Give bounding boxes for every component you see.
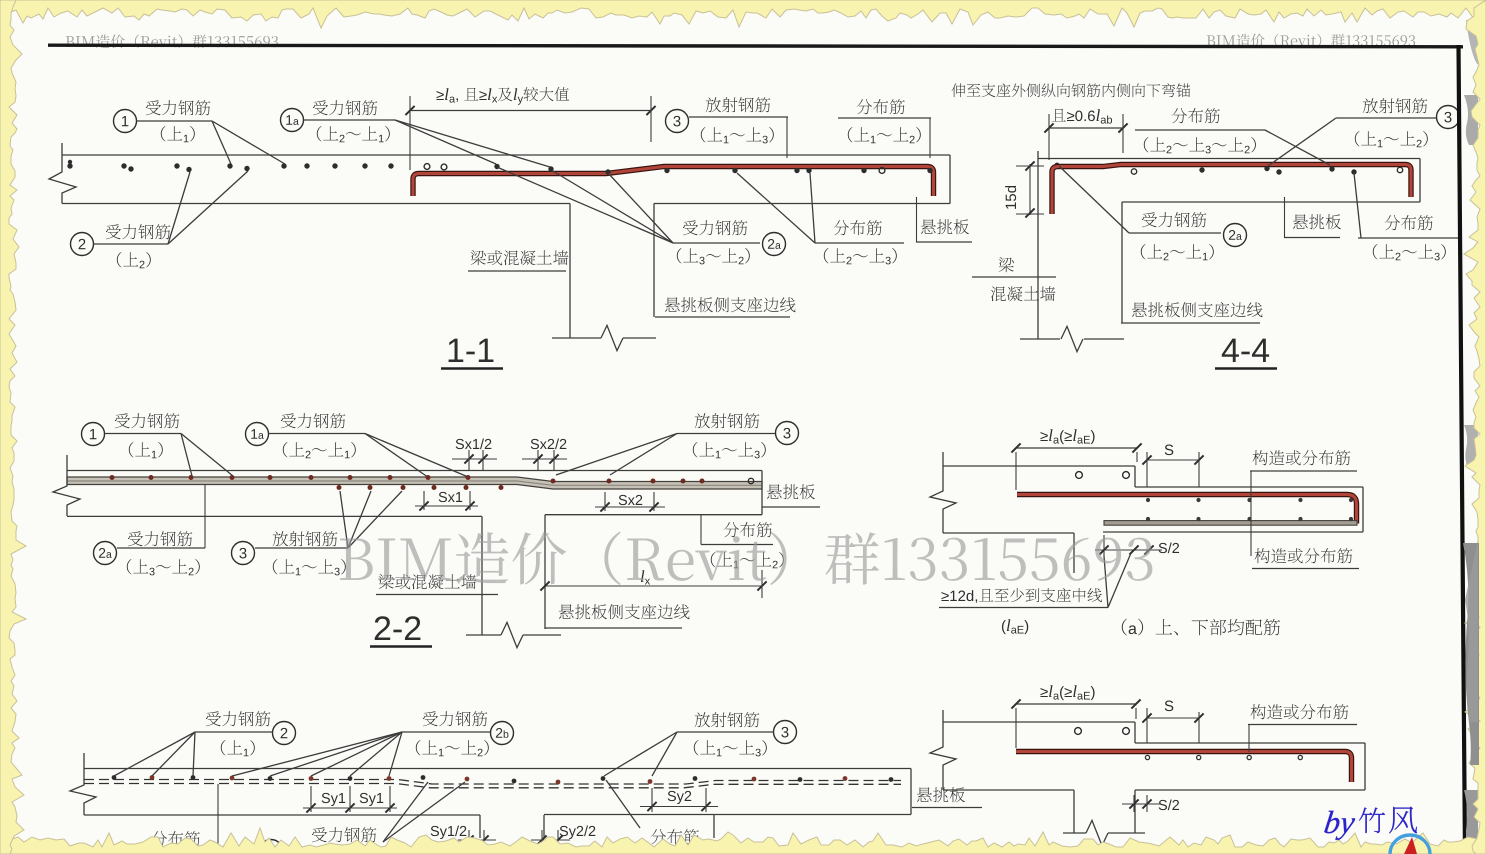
label fabric bars top right 1-1 xyxy=(857,99,905,114)
2-2 circle 2a xyxy=(94,542,117,565)
3-3 circle 2 xyxy=(206,711,270,726)
2-2 circle 3 bottom xyxy=(232,542,255,565)
(b) slab outline xyxy=(943,721,1135,723)
label circle 3 : radial bars 1-1 xyxy=(666,110,689,133)
rebar dots 4-4 xyxy=(1131,169,1136,174)
(b) distribution dots xyxy=(1145,755,1149,759)
15d dimension xyxy=(1029,164,1031,215)
title 1-1 xyxy=(449,339,494,362)
(a) 12d note xyxy=(941,588,1101,603)
label cantilever slab 1-1 xyxy=(921,219,969,234)
title 2-2 xyxy=(375,616,421,640)
(a) dimension la xyxy=(1040,429,1094,444)
(b) S/2 dim xyxy=(1159,799,1179,810)
2-2 dim Sx1 xyxy=(439,492,463,502)
3-3 cantilever label xyxy=(917,787,965,802)
(b) rebar xyxy=(1016,752,1352,783)
(a) top anchor circles xyxy=(1076,472,1083,479)
2-2 left break xyxy=(53,455,80,516)
4-4 header note xyxy=(952,83,1190,97)
label beam/wall 4-4 xyxy=(999,257,1014,272)
2-2 circle 1 xyxy=(82,423,105,446)
(a) S dimension xyxy=(1165,445,1174,456)
2-2 lx dimension xyxy=(545,585,762,587)
3-3 dashed bars xyxy=(84,780,901,785)
label support edge 4-4 xyxy=(1132,302,1263,317)
label circle 2 : bottom bars xyxy=(71,233,94,256)
signature by zhufeng xyxy=(1323,811,1356,840)
dimension >=la top of 1-1 xyxy=(410,110,651,112)
right page edge xyxy=(1459,45,1466,854)
label 2a mid 1-1 xyxy=(683,220,747,235)
label cantilever 4-4 xyxy=(1293,214,1341,229)
2-2 circle 1a xyxy=(246,423,269,446)
3-3 circle 2b xyxy=(423,711,487,726)
dimension 0.6lab xyxy=(1049,127,1123,129)
(a) S/2 and 12d dims xyxy=(1159,542,1179,553)
section 1-1 slab outline xyxy=(62,154,950,156)
2-2 circle 3 top xyxy=(776,422,799,445)
label circle 1a xyxy=(281,109,304,132)
gray scan streaks right edge xyxy=(1464,95,1478,145)
top rule xyxy=(48,45,1463,47)
(b) fabric label xyxy=(1250,704,1348,719)
label fabric mid 1-1 xyxy=(834,220,882,235)
3-3 fabric label mid xyxy=(651,829,699,844)
watermark center xyxy=(340,532,1152,585)
label main bars 4-4 xyxy=(1142,212,1206,227)
3-3 dims Sy1 xyxy=(322,793,346,806)
(a) caption xyxy=(1122,619,1280,636)
2-2 slab band (cut) xyxy=(67,477,762,489)
3-3 dots xyxy=(112,775,117,780)
3-3 dims Sy1/2 Sy2/2 xyxy=(431,825,467,839)
watermark top-left xyxy=(66,34,278,48)
rebar section dots 1-1 xyxy=(67,163,72,168)
title 4-4 xyxy=(1222,339,1269,362)
3-3 fabric label left xyxy=(152,831,200,846)
(b) dimension la xyxy=(1040,685,1094,700)
(a) bottom bars band xyxy=(1104,521,1357,526)
3-3 left break xyxy=(70,753,96,815)
wall below 1-1 xyxy=(569,204,571,339)
2-2 support edge label xyxy=(559,604,690,619)
2-2 wall lines xyxy=(67,515,482,517)
label circle 1 : main bars xyxy=(114,110,137,133)
watermark top-right xyxy=(1207,34,1415,48)
(a) slab outline xyxy=(943,465,1135,467)
label radial top 4-4 xyxy=(1363,98,1428,113)
2-2 dims Sx1/2 Sx2/2 xyxy=(456,438,492,449)
2-2 dim Sx2 xyxy=(619,495,643,505)
2-2 beam label xyxy=(379,574,477,589)
3-3 dim Sy2 xyxy=(668,791,692,804)
2-2 slab top line xyxy=(67,470,762,472)
3-3 slab top line xyxy=(84,768,911,770)
label fabric top 4-4 xyxy=(1172,108,1220,123)
3-3 circle 3 xyxy=(695,712,760,727)
2-2 cantilever label xyxy=(767,484,815,499)
label beam/wall 1-1 xyxy=(471,250,569,265)
(a) bottom fabric label xyxy=(1254,548,1352,563)
decorative yellow scan border xyxy=(0,0,1486,28)
2-2 fabric label xyxy=(724,522,772,537)
rebar (red) 4-4 with down hook xyxy=(1052,165,1411,215)
3-3 main bar label bottom xyxy=(312,827,376,842)
3-3 support lines xyxy=(84,814,480,816)
(a) top rebar xyxy=(1017,495,1357,524)
label fabric right 4-4 xyxy=(1385,215,1433,230)
label support edge 1-1 xyxy=(665,297,796,312)
logo bottom right xyxy=(1390,835,1430,854)
(a) top fabric label xyxy=(1252,450,1350,465)
2-2 bar dots xyxy=(110,475,115,480)
(b) S dimension xyxy=(1165,701,1174,712)
rebar (red) 1-1 xyxy=(413,167,934,197)
(b) anchor circles xyxy=(1075,728,1082,735)
4-4 slab outline xyxy=(1038,158,1420,160)
(a) distribution dots xyxy=(1146,498,1150,502)
